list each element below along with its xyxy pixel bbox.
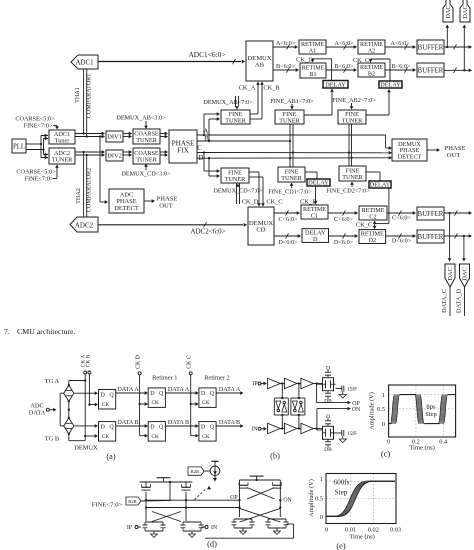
- svg-text:D: D: [326, 414, 330, 420]
- svg-text:COARSE<5:0>: COARSE<5:0>: [15, 116, 55, 123]
- svg-text:DETECT: DETECT: [398, 153, 422, 160]
- svg-text:FINE<7:0>: FINE<7:0>: [24, 123, 53, 130]
- svg-text:0: 0: [325, 526, 328, 533]
- svg-text:IP: IP: [127, 525, 132, 531]
- svg-text:DAC: DAC: [445, 5, 452, 19]
- svg-text:TUNER: TUNER: [281, 175, 302, 182]
- svg-text:Step: Step: [335, 489, 348, 497]
- svg-text:TUNER: TUNER: [342, 117, 363, 124]
- svg-text:DB: DB: [324, 447, 332, 453]
- svg-text:0.5: 0.5: [315, 496, 323, 503]
- svg-text:ADC: ADC: [30, 403, 44, 410]
- svg-text:B2: B2: [368, 70, 375, 77]
- svg-text:1: 1: [382, 392, 385, 399]
- svg-text:FINE_CD1<7:0>: FINE_CD1<7:0>: [268, 188, 312, 195]
- svg-text:DAC: DAC: [447, 267, 454, 281]
- svg-text:C<6:0>: C<6:0>: [334, 216, 354, 223]
- svg-text:OUT: OUT: [447, 152, 461, 159]
- svg-text:DEMUX_CD<7:0>: DEMUX_CD<7:0>: [213, 188, 263, 195]
- svg-text:CK: CK: [102, 434, 110, 440]
- svg-text:15fF: 15fF: [347, 386, 357, 393]
- svg-text:PLL: PLL: [13, 143, 25, 150]
- svg-text:OP: OP: [230, 495, 237, 501]
- svg-text:0.01: 0.01: [345, 526, 356, 533]
- svg-text:1: 1: [320, 476, 323, 483]
- svg-text:Step: Step: [425, 411, 437, 418]
- svg-text:CK_B: CK_B: [263, 85, 279, 92]
- svg-text:(b): (b): [270, 452, 280, 461]
- svg-text:THA2: THA2: [75, 188, 82, 204]
- svg-text:C<6:0>: C<6:0>: [278, 216, 298, 223]
- svg-text:CK: CK: [202, 434, 210, 440]
- svg-text:AB: AB: [255, 62, 265, 69]
- svg-text:ON: ON: [352, 407, 361, 413]
- svg-text:D<6:0>: D<6:0>: [278, 239, 298, 246]
- svg-text:Q: Q: [210, 425, 215, 431]
- svg-text:OUT: OUT: [159, 203, 173, 210]
- svg-text:B<6:0>: B<6:0>: [276, 63, 296, 70]
- svg-text:CK_C: CK_C: [356, 221, 372, 228]
- svg-text:A<6:0>: A<6:0>: [334, 40, 354, 47]
- svg-text:A1: A1: [309, 47, 317, 54]
- svg-text:BUFFER: BUFFER: [418, 67, 444, 74]
- svg-text:IP: IP: [252, 381, 257, 387]
- svg-text:8ps: 8ps: [426, 404, 436, 411]
- svg-text:DAC: DAC: [462, 5, 469, 19]
- svg-text:C1: C1: [311, 212, 318, 219]
- svg-text:Retimer 1: Retimer 1: [152, 375, 177, 382]
- svg-text:CK_D: CK_D: [296, 57, 313, 64]
- svg-text:D: D: [201, 425, 206, 431]
- svg-text:BUFFER: BUFFER: [418, 44, 444, 51]
- svg-text:FINE_CD2<7:0>: FINE_CD2<7:0>: [326, 187, 370, 194]
- svg-text:Retimer 2: Retimer 2: [204, 375, 229, 382]
- svg-text:CK_A: CK_A: [239, 85, 256, 92]
- svg-text:D: D: [101, 425, 106, 431]
- svg-text:DATA A: DATA A: [117, 386, 139, 393]
- svg-text:B<6:0>: B<6:0>: [334, 63, 354, 70]
- svg-text:Q: Q: [159, 425, 164, 431]
- svg-text:Time (ns): Time (ns): [349, 534, 375, 541]
- svg-text:DELAY: DELAY: [370, 182, 391, 189]
- svg-text:D: D: [326, 366, 330, 372]
- svg-text:FINE_AB1<7:0>: FINE_AB1<7:0>: [270, 98, 314, 105]
- svg-text:CMU architecture.: CMU architecture.: [17, 327, 76, 336]
- svg-text:Amplitude (V): Amplitude (V): [308, 479, 315, 517]
- svg-text:ADC1<6:0>: ADC1<6:0>: [188, 50, 225, 59]
- svg-text:C<6:0>: C<6:0>: [392, 215, 412, 222]
- svg-text:DATA B: DATA B: [219, 419, 240, 426]
- svg-text:TUNER: TUNER: [225, 117, 246, 124]
- svg-text:0: 0: [320, 514, 323, 521]
- svg-text:CK: CK: [151, 400, 159, 406]
- svg-text:Q: Q: [109, 425, 114, 431]
- svg-text:ADC1: ADC1: [75, 59, 94, 67]
- svg-text:IN: IN: [251, 427, 258, 433]
- svg-text:BUFFER: BUFFER: [418, 211, 444, 218]
- svg-text:(c): (c): [381, 450, 391, 459]
- svg-text:A<6:0>: A<6:0>: [276, 40, 296, 47]
- svg-text:CK_D: CK_D: [300, 199, 317, 206]
- svg-text:DELAY: DELAY: [380, 82, 401, 89]
- svg-text:D: D: [150, 391, 155, 397]
- svg-text:0.03: 0.03: [390, 526, 401, 533]
- svg-text:COMPARATOR2: COMPARATOR2: [86, 168, 93, 213]
- svg-text:DELAY: DELAY: [325, 81, 346, 88]
- svg-text:CK_D: CK_D: [242, 199, 259, 206]
- svg-text:7.: 7.: [4, 327, 10, 336]
- svg-text:DEMUX_CD<3:0>: DEMUX_CD<3:0>: [121, 171, 171, 178]
- svg-text:TUNER: TUNER: [279, 117, 300, 124]
- svg-text:TUNER: TUNER: [342, 174, 363, 181]
- svg-text:D: D: [313, 236, 318, 243]
- svg-text:CK: CK: [151, 434, 159, 440]
- svg-text:CK B: CK B: [86, 354, 92, 367]
- svg-text:DB: DB: [324, 398, 332, 404]
- svg-text:TUNER: TUNER: [136, 156, 157, 163]
- svg-text:D: D: [150, 425, 155, 431]
- svg-text:DEMUX_AB<3:0>: DEMUX_AB<3:0>: [116, 115, 166, 122]
- svg-text:TUNER: TUNER: [225, 176, 246, 183]
- svg-text:ADC2: ADC2: [75, 221, 94, 229]
- svg-text:0.5: 0.5: [377, 406, 385, 413]
- svg-text:CK C: CK C: [187, 355, 193, 369]
- svg-text:TUNER: TUNER: [136, 137, 157, 144]
- svg-text:(e): (e): [336, 542, 346, 550]
- svg-text:ON: ON: [283, 498, 292, 504]
- svg-text:IN: IN: [211, 525, 218, 531]
- svg-text:Q: Q: [159, 391, 164, 397]
- svg-text:TG B: TG B: [45, 436, 59, 443]
- svg-text:B<6:0>: B<6:0>: [391, 63, 411, 70]
- svg-text:C: C: [197, 145, 202, 152]
- svg-text:DATA A: DATA A: [168, 386, 190, 393]
- svg-text:A<6:0>: A<6:0>: [390, 40, 410, 47]
- svg-text:DEMUX: DEMUX: [74, 445, 98, 452]
- svg-text:R2R: R2R: [128, 499, 137, 504]
- svg-text:15fF: 15fF: [347, 430, 357, 437]
- svg-text:DATA_D: DATA_D: [456, 288, 463, 313]
- svg-text:FINE<7:0>: FINE<7:0>: [92, 502, 123, 509]
- svg-text:CD: CD: [256, 227, 265, 234]
- svg-text:COMPARATOR1: COMPARATOR1: [86, 74, 93, 119]
- svg-text:DATA A: DATA A: [219, 386, 241, 393]
- svg-text:FINE_AB2<7:0>: FINE_AB2<7:0>: [332, 97, 376, 104]
- svg-text:DETECT: DETECT: [114, 205, 139, 212]
- svg-text:600fs: 600fs: [334, 479, 350, 487]
- svg-text:Q: Q: [210, 391, 215, 397]
- svg-text:CK: CK: [202, 400, 210, 406]
- svg-text:D<6:0>: D<6:0>: [334, 239, 354, 246]
- svg-text:TG A: TG A: [45, 378, 60, 385]
- svg-text:CK: CK: [102, 402, 110, 408]
- svg-text:DIV2: DIV2: [107, 153, 122, 160]
- svg-text:FINE<7:0>: FINE<7:0>: [25, 176, 54, 183]
- svg-text:ADC2<6:0>: ADC2<6:0>: [190, 228, 225, 236]
- svg-text:C2: C2: [369, 213, 376, 220]
- svg-text:Q: Q: [109, 393, 114, 399]
- svg-text:D<6:0>: D<6:0>: [392, 238, 412, 245]
- svg-text:(a): (a): [106, 452, 116, 461]
- svg-text:CK D: CK D: [135, 355, 141, 369]
- svg-text:0: 0: [387, 439, 390, 446]
- svg-text:BUFFER: BUFFER: [418, 234, 444, 241]
- svg-text:DATA: DATA: [29, 410, 46, 417]
- svg-text:R2R: R2R: [191, 469, 200, 474]
- svg-text:A2: A2: [368, 47, 376, 54]
- svg-text:D: D: [101, 393, 106, 399]
- svg-text:Time (ns): Time (ns): [409, 445, 435, 452]
- svg-text:D: D: [201, 391, 206, 397]
- svg-text:PHASE: PHASE: [157, 196, 178, 203]
- svg-text:DATA_C: DATA_C: [441, 289, 448, 313]
- svg-text:DEMUX_AB<7:0>: DEMUX_AB<7:0>: [203, 99, 253, 106]
- svg-text:FIX: FIX: [177, 147, 189, 155]
- svg-text:CK_C: CK_C: [266, 199, 282, 206]
- svg-text:COARSE<5:0>: COARSE<5:0>: [16, 169, 56, 176]
- svg-text:0.4: 0.4: [439, 439, 448, 446]
- svg-text:DATA B: DATA B: [168, 419, 189, 426]
- svg-text:0: 0: [382, 421, 385, 428]
- svg-text:B1: B1: [309, 71, 316, 78]
- svg-text:0.02: 0.02: [368, 526, 379, 533]
- svg-text:Amplitude (V): Amplitude (V): [369, 392, 376, 430]
- svg-text:PHASE: PHASE: [445, 145, 466, 152]
- svg-text:THA1: THA1: [74, 87, 81, 103]
- svg-text:D2: D2: [369, 237, 377, 244]
- svg-text:DELAY: DELAY: [308, 180, 329, 187]
- svg-text:DATA B: DATA B: [117, 419, 138, 426]
- svg-text:Tuner: Tuner: [55, 137, 70, 144]
- svg-text:DIV1: DIV1: [107, 134, 122, 141]
- svg-text:TUNER: TUNER: [52, 156, 73, 163]
- svg-text:DAC: DAC: [462, 267, 469, 281]
- svg-text:(d): (d): [207, 540, 217, 549]
